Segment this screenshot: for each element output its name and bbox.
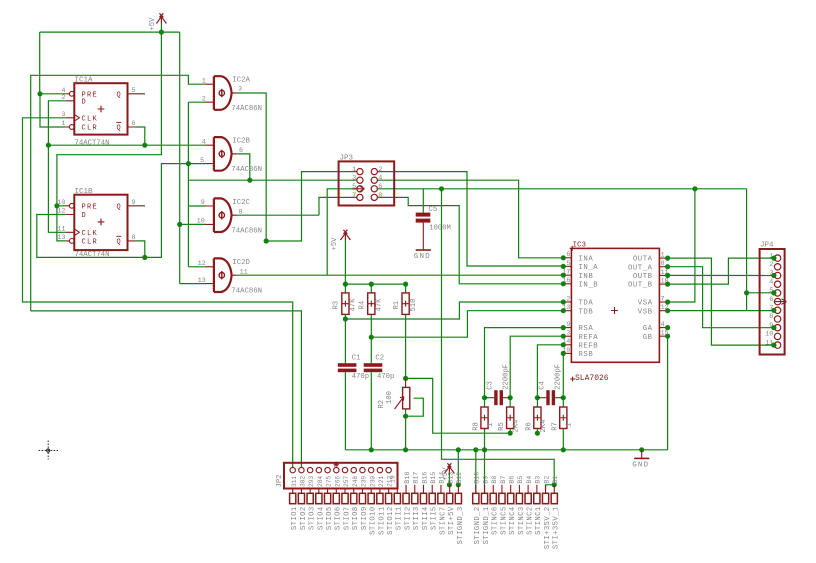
- wire net TDB: [371, 311, 563, 338]
- svg-text:10: 10: [57, 199, 65, 207]
- svg-text:STI+35V_2: STI+35V_2: [544, 506, 552, 549]
- svg-text:19: 19: [390, 475, 397, 483]
- svg-text:C3: C3: [486, 381, 494, 390]
- wire R2 wiper loop: [406, 398, 424, 416]
- wire OUT_B to JP4 pin1: [668, 258, 775, 284]
- wire VSB to JP4 pin7: [668, 310, 775, 312]
- wire C2 bottom to GND rail: [370, 372, 372, 450]
- JP2 pin 11: [377, 467, 382, 472]
- svg-text:10: 10: [765, 331, 773, 339]
- connector pin flag STII5: [431, 485, 433, 494]
- junction Q1A feedback: [46, 143, 51, 148]
- svg-text:B17: B17: [413, 472, 420, 484]
- JP2 origin mark: [333, 462, 339, 468]
- junction IC3 VSA: [665, 299, 670, 304]
- junction IC3 GB: [665, 334, 670, 339]
- connector pin flag STII2: [405, 485, 407, 494]
- wire +5V to IC1A CLR: [40, 94, 66, 127]
- svg-text:B4: B4: [526, 476, 533, 484]
- svg-text:D: D: [82, 212, 88, 220]
- wire C2 top lead: [370, 337, 372, 363]
- svg-text:74AC86N: 74AC86N: [231, 166, 262, 174]
- wire C3 left lead: [485, 397, 495, 399]
- IC3 value SLA7026: [570, 377, 575, 382]
- junction IC3 OUTB: [665, 273, 670, 278]
- JP3 pin 1: [357, 169, 363, 175]
- junction R5 bottom: [508, 431, 513, 436]
- wire IC1A Qbar drop: [136, 127, 145, 145]
- junction: [639, 447, 644, 452]
- wire REFA to C3/R5: [510, 336, 563, 398]
- wire to JP3 pin 1: [266, 172, 357, 241]
- JP3 pin 4: [371, 177, 377, 183]
- connector pin flag STIO9: [361, 489, 363, 494]
- +5V supply mid: [340, 230, 350, 240]
- IC3 pin 13 TDB: [563, 310, 571, 312]
- wire R3 bottom lead: [344, 314, 346, 319]
- wire C4 right lead: [555, 397, 563, 399]
- connector pin flag STIO3: [309, 489, 311, 494]
- junction R3 top: [343, 282, 348, 287]
- svg-text:3: 3: [238, 86, 242, 94]
- svg-text:74ACT74N: 74ACT74N: [75, 251, 110, 259]
- svg-text:1: 1: [661, 252, 665, 259]
- svg-text:GA: GA: [643, 325, 653, 333]
- svg-text:R6: R6: [525, 422, 533, 431]
- svg-text:2K4: 2K4: [513, 420, 521, 433]
- junction: [561, 447, 566, 452]
- JP3 pin 6: [371, 186, 377, 192]
- wire +5V to IC1A PRE: [39, 32, 41, 94]
- svg-text:2200pF: 2200pF: [503, 364, 511, 390]
- junction JP4 pin 11: [771, 343, 776, 348]
- JP3 pin 7: [357, 194, 363, 200]
- svg-text:3: 3: [352, 175, 356, 183]
- svg-text:6: 6: [132, 120, 136, 128]
- svg-text:C4: C4: [539, 381, 547, 390]
- JP2 pin 12: [386, 467, 391, 472]
- svg-text:2K4: 2K4: [540, 420, 548, 433]
- wire VS rail to JP4: [746, 189, 748, 311]
- svg-text:266: 266: [334, 476, 341, 487]
- svg-text:9: 9: [132, 199, 136, 207]
- svg-text:74AC86N: 74AC86N: [231, 227, 262, 235]
- junction IC3 REFB: [561, 342, 566, 347]
- svg-text:R1: R1: [393, 301, 401, 310]
- wire C5 top lead: [422, 189, 424, 213]
- wire net STIO2 to IC2A pin 1: [31, 75, 206, 311]
- svg-text:1: 1: [487, 423, 495, 427]
- wire R5 top lead: [509, 398, 511, 407]
- svg-text:RSA: RSA: [579, 325, 594, 333]
- wire C3 right lead: [503, 397, 510, 399]
- svg-text:47K: 47K: [376, 298, 384, 312]
- svg-text:1: 1: [566, 423, 574, 427]
- +5V supply at connector: [444, 463, 454, 473]
- svg-text:47K: 47K: [350, 298, 358, 312]
- svg-text:IC1B: IC1B: [75, 188, 94, 196]
- junction IC3 TDA: [561, 299, 566, 304]
- JP4 pin 1: [774, 255, 780, 261]
- xor gate IC2C 74AC86N: [214, 198, 232, 232]
- svg-text:IN_A: IN_A: [579, 264, 599, 272]
- JP4 pin6 arrow: [774, 299, 787, 305]
- JP2 pin 10: [368, 467, 373, 472]
- svg-text:1: 1: [352, 166, 356, 174]
- svg-text:STINC6: STINC6: [492, 506, 500, 535]
- svg-text:C2: C2: [375, 354, 384, 362]
- IC3 pin 4 GA: [659, 327, 667, 329]
- xor gate IC2A 74AC86N: [214, 76, 232, 110]
- junction R1 top: [403, 282, 408, 287]
- wire to STIGND_2 flag: [475, 450, 477, 494]
- svg-text:257: 257: [343, 476, 350, 487]
- svg-text:GB: GB: [643, 334, 653, 342]
- wire +5V top rail: [40, 31, 180, 33]
- wire OUTA to JP4 pin11: [668, 258, 775, 345]
- wire C1 bottom to GND rail: [344, 372, 346, 450]
- JP2 pin 9: [360, 467, 365, 472]
- svg-text:8: 8: [769, 313, 773, 321]
- resistor R8: [481, 407, 488, 429]
- IC3 pin 14 REFB: [563, 344, 571, 346]
- wire R6 top lead: [536, 398, 538, 407]
- svg-text:OUT_A: OUT_A: [628, 264, 653, 272]
- wire +5V to pullups: [345, 283, 405, 285]
- wire R2 to GND rail: [405, 416, 407, 450]
- JP3 pin 3: [357, 177, 363, 183]
- resistor R3: [342, 293, 349, 315]
- wire JP3 pin8 to IN_B: [377, 197, 563, 283]
- JP4 pin 5: [774, 290, 780, 296]
- junction IC3 VSB: [665, 308, 670, 313]
- svg-text:STIGND_2: STIGND_2: [474, 506, 482, 544]
- wire net REF divider: [406, 378, 511, 433]
- svg-text:VSA: VSA: [638, 300, 653, 308]
- junction XOR input bus: [186, 161, 191, 166]
- svg-text:OUTB: OUTB: [633, 273, 653, 281]
- junction IC3 INA: [561, 255, 566, 260]
- svg-text:284: 284: [317, 476, 324, 487]
- svg-text:CLR: CLR: [82, 125, 99, 133]
- junction IC1A Qbar drop: [142, 143, 147, 148]
- connector pin flag STIO6: [335, 489, 337, 494]
- svg-text:IC1A: IC1A: [75, 77, 94, 85]
- svg-text:STIO1: STIO1: [291, 506, 299, 530]
- svg-text:+5V: +5V: [331, 237, 339, 251]
- svg-text:13: 13: [57, 234, 65, 242]
- svg-text:B15: B15: [430, 472, 437, 484]
- wire net to JP3 pin 3: [188, 179, 357, 181]
- svg-text:RSB: RSB: [579, 351, 594, 359]
- IC3 pin 10 RSB: [563, 352, 571, 354]
- IC IC3 SLA7026 box: [571, 248, 659, 362]
- connector pin flag STIO4: [318, 489, 320, 494]
- connector pin flag STI+5V: [449, 485, 451, 494]
- svg-text:B6: B6: [508, 476, 515, 484]
- svg-text:B12: B12: [456, 472, 463, 484]
- svg-text:SLA7026: SLA7026: [575, 374, 609, 383]
- svg-text:B5: B5: [517, 476, 524, 484]
- flip-flop IC1A 74ACT74N: [74, 83, 127, 134]
- svg-text:TDA: TDA: [579, 300, 594, 308]
- connector pin flag STIGND_2: [475, 485, 477, 494]
- IC3 pin 9 RSA: [563, 327, 571, 329]
- wire R6 bottom lead: [536, 429, 538, 434]
- svg-text:2: 2: [202, 95, 206, 103]
- junction R1-R2 node: [403, 376, 408, 381]
- svg-text:PRE: PRE: [82, 203, 99, 211]
- IC3 pin 12 VSB: [659, 310, 667, 312]
- svg-text:7: 7: [661, 295, 665, 302]
- svg-text:VSB: VSB: [638, 308, 653, 316]
- IC3 pin 8 OUT_A: [659, 266, 667, 268]
- JP4 pin 3: [774, 272, 780, 278]
- wire R8 top lead: [484, 398, 486, 407]
- svg-text:CLK: CLK: [82, 230, 99, 238]
- IC3 pin 18 OUT_B: [659, 283, 667, 285]
- JP3 pin5 arrow: [353, 186, 365, 192]
- svg-text:STINC2: STINC2: [527, 506, 535, 535]
- svg-text:STIO7: STIO7: [343, 506, 351, 530]
- JP3 pin 8: [371, 194, 377, 200]
- svg-text:4: 4: [661, 321, 665, 328]
- svg-text:INB: INB: [579, 273, 594, 281]
- wire to STIGND_3 flag: [457, 450, 459, 485]
- svg-text:239: 239: [361, 476, 368, 487]
- svg-text:Q: Q: [117, 239, 121, 247]
- junction JP4 pin 5: [771, 290, 776, 295]
- wire IC2A output: [237, 93, 267, 241]
- JP3 pin 5: [357, 186, 363, 192]
- svg-text:IN_B: IN_B: [579, 281, 599, 289]
- svg-text:1: 1: [61, 120, 65, 128]
- junction C4 right: [561, 395, 566, 400]
- svg-text:STIO4: STIO4: [317, 506, 325, 530]
- junction IC1B PRE: [54, 203, 59, 208]
- junction JP4 pin 7: [771, 308, 776, 313]
- svg-text:GND: GND: [632, 462, 649, 470]
- junction R4 top: [369, 282, 374, 287]
- IC3 pin 16 IN_B: [563, 283, 571, 285]
- svg-text:STIO10: STIO10: [370, 506, 378, 535]
- svg-text:74AC86N: 74AC86N: [231, 287, 262, 295]
- connector pin flag STINC1: [536, 485, 538, 494]
- junction STI+35V_1 flag: [552, 482, 557, 487]
- wire to PRE pin: [40, 93, 66, 95]
- svg-text:4: 4: [202, 138, 206, 146]
- IC3 pin 7 VSA: [659, 301, 667, 303]
- svg-text:2: 2: [378, 166, 382, 174]
- svg-text:2200pF: 2200pF: [555, 364, 563, 390]
- svg-text:4: 4: [378, 175, 382, 183]
- svg-text:+5V: +5V: [149, 17, 157, 31]
- svg-text:C1: C1: [352, 354, 361, 362]
- svg-text:GND: GND: [414, 253, 431, 261]
- xor gate IC2B 74AC86N: [214, 137, 232, 171]
- wire net +35V: [442, 189, 555, 485]
- svg-text:CLK: CLK: [82, 115, 99, 123]
- wire +5V drop to IC2C/IC2D inputs: [179, 32, 181, 284]
- connector pin flag STIO5: [327, 489, 329, 494]
- JP2 pin 4: [316, 467, 321, 472]
- svg-text:STINC7: STINC7: [439, 506, 447, 535]
- svg-text:2: 2: [61, 94, 65, 102]
- JP4 pin 4: [774, 281, 780, 287]
- svg-text:STINC3: STINC3: [518, 506, 526, 535]
- xor gate IC2D 74AC86N: [214, 258, 232, 292]
- connector pin flag STII3: [414, 485, 416, 494]
- svg-text:74AC86N: 74AC86N: [231, 105, 262, 113]
- JP2 pin 7: [342, 467, 347, 472]
- IC3 name: [570, 246, 575, 251]
- connector pin flag STIO10: [370, 489, 372, 494]
- svg-text:302: 302: [300, 476, 307, 487]
- wire R2 top lead: [405, 378, 407, 387]
- wire GND rail: [345, 449, 667, 451]
- svg-text:STIO6: STIO6: [335, 506, 343, 530]
- ground near C5: [416, 249, 431, 251]
- junction: [403, 447, 408, 452]
- junction VS rail: [439, 186, 444, 191]
- wire net TDA: [345, 302, 563, 319]
- svg-text:STI+5V: STI+5V: [448, 506, 456, 535]
- wire VS rail from JP3 pin6: [377, 188, 746, 190]
- IC3 pin 11 OUTB: [659, 274, 667, 276]
- junction IC3 INB: [561, 273, 566, 278]
- capacitor C4: [546, 390, 555, 405]
- junction R3 bottom: [343, 316, 348, 321]
- sheet origin marker: [39, 441, 58, 460]
- connector pin flag STIO2: [300, 489, 302, 494]
- IC3 pin 5 IN_A: [563, 265, 571, 267]
- connector pin flag STINC5: [501, 485, 503, 494]
- svg-text:OUTA: OUTA: [633, 256, 653, 264]
- svg-text:INA: INA: [579, 255, 594, 263]
- svg-text:11: 11: [240, 268, 248, 276]
- junction: [369, 447, 374, 452]
- svg-text:STINC1: STINC1: [535, 506, 543, 535]
- svg-text:5: 5: [352, 183, 356, 191]
- svg-text:B18: B18: [404, 472, 411, 484]
- wire R4 bottom lead: [370, 314, 372, 337]
- R2 wiper arrow: [395, 397, 404, 409]
- junction IC3 IN_A: [561, 264, 566, 269]
- wire OUT_A to JP4 pin9: [668, 267, 775, 328]
- junction IC1B Qbar: [142, 255, 147, 260]
- wire R1 top lead: [405, 284, 407, 293]
- IC3 pin 1 OUTA: [659, 257, 667, 259]
- capacitor C2: [364, 363, 383, 372]
- svg-text:STIO9: STIO9: [361, 506, 369, 530]
- wire C1 top lead: [344, 319, 346, 363]
- capacitor C1: [338, 363, 357, 372]
- wire IC2D output to INB: [237, 274, 564, 276]
- IC3 pin 2 TDA: [563, 301, 571, 303]
- svg-text:221: 221: [378, 476, 385, 487]
- JP2 pin 8: [351, 467, 356, 472]
- svg-text:IC2B: IC2B: [232, 138, 250, 146]
- svg-text:IC3: IC3: [573, 242, 587, 250]
- svg-text:STII3: STII3: [413, 506, 421, 530]
- IC3 pin 15 GB: [659, 335, 667, 337]
- svg-text:9: 9: [201, 199, 205, 207]
- junction STIGND_3: [456, 482, 461, 487]
- junction IC3 RSA: [561, 325, 566, 330]
- trimmer resistor R2: [403, 387, 410, 409]
- wire +5V to IC1B PRE CLR: [57, 32, 161, 241]
- wire to IC2A pin 2: [188, 101, 205, 103]
- connector pin flag STINC2: [527, 485, 529, 494]
- IC3 pin 3 REFA: [563, 335, 571, 337]
- svg-text:STI+35V_1: STI+35V_1: [553, 506, 561, 549]
- svg-text:2: 2: [769, 261, 773, 269]
- JP4 pin 7: [774, 307, 780, 313]
- JP2 pin 1: [290, 467, 295, 472]
- svg-text:8: 8: [239, 208, 243, 216]
- svg-text:3: 3: [566, 330, 570, 337]
- connector pin flag STIGND_3: [457, 485, 459, 494]
- wire R4 top lead: [370, 284, 372, 293]
- wire net Q1A to IC2B pin 4: [48, 144, 205, 146]
- connector pin flag STINC3: [518, 485, 520, 494]
- svg-text:470p: 470p: [377, 373, 394, 381]
- svg-text:B2: B2: [543, 476, 550, 484]
- svg-text:STINC5: STINC5: [500, 506, 508, 535]
- svg-text:230: 230: [369, 476, 376, 487]
- connector pin flag STII4: [423, 485, 425, 494]
- wire R7 bottom lead: [562, 429, 564, 450]
- wire R8 bottom to STIGND_1 flag: [484, 429, 486, 494]
- JP4 pin 10: [774, 333, 780, 339]
- junction IC3 IN_B: [561, 281, 566, 286]
- svg-text:6: 6: [239, 147, 243, 155]
- junction IC1A PRE: [37, 91, 42, 96]
- wire GND symbol stub: [641, 450, 643, 458]
- junction: [482, 447, 487, 452]
- wire to JP3 pin 5: [327, 189, 357, 275]
- wire IC1A D to IC1B CLK: [48, 101, 66, 233]
- svg-text:CLR: CLR: [82, 239, 99, 247]
- svg-text:B13: B13: [447, 472, 454, 484]
- svg-text:B16: B16: [421, 472, 428, 484]
- svg-text:5: 5: [132, 87, 136, 95]
- connector pin flag STIO1: [292, 489, 294, 494]
- junction C3 right: [508, 395, 513, 400]
- svg-text:Q: Q: [117, 91, 121, 99]
- wire C4 left lead: [537, 397, 546, 399]
- IC3 pin 6 INA: [563, 257, 571, 259]
- junction IC2B out: [247, 178, 252, 183]
- wire to IC2C pin 10: [180, 223, 206, 225]
- wire to JP3 pin 7: [319, 197, 357, 215]
- connector pin flag STIGND_1: [484, 485, 486, 494]
- wire net STIO1 to IC1A CLK: [23, 118, 293, 467]
- svg-text:B10: B10: [474, 472, 481, 484]
- svg-text:3: 3: [61, 111, 65, 119]
- connector pin flag STIO8: [353, 489, 355, 494]
- svg-text:STIGND_3: STIGND_3: [457, 506, 465, 544]
- svg-text:STIO12: STIO12: [387, 506, 395, 535]
- svg-text:12: 12: [198, 260, 206, 268]
- wire to IC2D pin 13: [180, 283, 206, 285]
- JP2 pin 6: [334, 467, 339, 472]
- resistor R5: [507, 407, 514, 429]
- capacitor C5: [416, 213, 431, 223]
- junction VS rail VSA: [692, 186, 697, 191]
- svg-text:REFB: REFB: [579, 342, 599, 350]
- svg-text:248: 248: [352, 476, 359, 487]
